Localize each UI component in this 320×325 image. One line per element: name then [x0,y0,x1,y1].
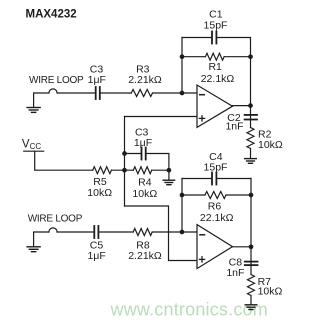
svg-text:1μF: 1μF [134,137,152,149]
wire: C1 branch left [182,37,211,39]
capacitor C2 [245,115,257,120]
wire: C3 mid branch left [125,153,141,155]
svg-text:www.cntronics.com: www.cntronics.com [110,300,268,320]
node: R1 right junction [248,54,253,59]
node: U1 output [248,103,253,108]
U1 minus sign [200,94,205,96]
svg-text:10kΩ: 10kΩ [258,286,283,298]
wire loop bump (top) [49,89,57,93]
svg-text:2.21kΩ: 2.21kΩ [128,74,162,86]
U2 minus sign [200,234,205,236]
svg-text:R1: R1 [208,61,222,73]
capacitor C8 [245,262,258,266]
node: R6 right junction [249,193,254,198]
ground (bottom input) [27,247,40,252]
wire: C3 mid branch right, down to R4 right node [147,154,169,171]
node: U2 output [249,244,254,249]
U2 plus sign [199,257,204,262]
ground (R4/C3 node) [163,180,174,185]
ground (R2) [245,159,257,164]
wire: U2 output [233,246,252,248]
resistor R3 [131,90,152,97]
wire: R2 to ground [250,149,252,159]
ground (R7) [245,305,257,310]
svg-text:22.1kΩ: 22.1kΩ [201,73,235,85]
op-amp U1 [197,85,233,127]
resistor R1 [205,53,224,60]
wire: R1 branch right [224,56,250,58]
svg-text:WIRE LOOP: WIRE LOOP [29,75,84,86]
junction dots [122,54,253,249]
resistor R5 [93,167,112,174]
node: C3 mid branch [122,151,127,156]
capacitor C4 [212,173,216,185]
resistor R4 [133,167,151,174]
wire: C4 branch left [182,178,211,180]
svg-text:R5: R5 [93,176,107,188]
wire: R4 to ground node [152,169,169,171]
wire: feedback right vertical (bottom loop) [250,179,252,247]
wire: feedback right vertical (top loop) [250,38,252,106]
wire: R5 to R4 [111,169,133,171]
wire: R6 branch left [182,194,205,196]
node: R4/ground junction [167,168,172,173]
svg-text:R6: R6 [208,201,222,213]
U1 plus sign [199,116,204,121]
svg-text:1nF: 1nF [225,121,243,133]
svg-text:10kΩ: 10kΩ [87,187,112,199]
wire: bottom input from ground to loop [34,232,49,247]
resistor R7 [248,275,255,296]
wire: loop to C5 [57,231,93,233]
svg-text:WIRE LOOP: WIRE LOOP [28,214,83,225]
resistor R2 [247,128,254,149]
capacitor C3 (top input) [96,87,100,99]
wire: output node down to C2 [250,106,252,128]
wire: R3 to op-amp U1 inverting input [153,92,198,94]
node: R6 left junction [180,193,185,198]
wire: feedback left vertical (bottom loop) [181,179,183,233]
svg-text:R4: R4 [138,177,152,189]
wire loop bump (bottom) [49,228,57,232]
svg-text:MAX4232: MAX4232 [26,9,77,21]
capacitor C1 [212,32,216,44]
wire: Vcc down and right to R5 [35,151,93,170]
node: U2 inverting input [180,230,185,235]
capacitor C5 [94,226,98,238]
resistor R6 [205,192,226,199]
capacitor C3 (middle) [142,148,146,160]
wire: C1 branch right [217,37,250,39]
node: R1 left junction [180,54,185,59]
wire: U1 non-inverting input [125,116,198,118]
svg-text:1μF: 1μF [88,74,106,86]
wire: C5 to R8 [99,231,133,233]
wire: middle node path to U2 + input [125,206,198,261]
wire: C3 to R3 [101,92,132,94]
wire: feedback left vertical (top loop) [181,38,183,94]
svg-text:15pF: 15pF [204,161,228,173]
wire: middle column (U1 + input down to lower path) [124,117,126,207]
resistor R8 [133,229,152,236]
wire: loop to C3 [57,92,95,94]
op-amp U2 [197,225,233,269]
svg-text:1μF: 1μF [87,250,105,262]
wire: top input from ground to loop [34,93,49,108]
node: U1 inverting input [180,91,185,96]
ground (top input) [27,108,40,113]
wire: R7 to ground [250,296,252,305]
wire: R1 branch left [182,56,205,58]
wire: U1 output [233,105,251,107]
wire: C4 branch right [217,178,251,180]
svg-text:2.21kΩ: 2.21kΩ [128,250,162,262]
wire: ground node stem [168,170,170,180]
wire: R8 to op-amp U2 inverting input [152,231,197,233]
svg-text:10kΩ: 10kΩ [132,188,157,200]
wire: R6 branch right [226,194,251,196]
wire: output node down to C8 [250,247,252,275]
svg-text:1nF: 1nF [226,267,244,279]
svg-text:22.1kΩ: 22.1kΩ [200,212,234,224]
svg-text:15pF: 15pF [204,20,228,32]
Vcc rail bar [24,150,44,152]
svg-text:10kΩ: 10kΩ [258,139,283,151]
node: R5/R4 junction [122,168,127,173]
